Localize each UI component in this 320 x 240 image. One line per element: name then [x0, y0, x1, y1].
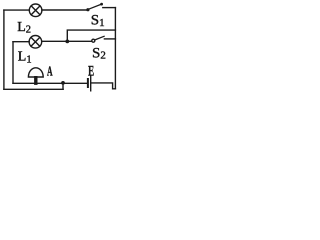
wire: outer left vertical [3, 10, 5, 89]
wire: top left segment [4, 9, 29, 11]
wire: outer bottom left segment [4, 88, 63, 90]
svg-text:L1: L1 [18, 50, 32, 66]
svg-text:S1: S1 [91, 12, 105, 28]
svg-text:L2: L2 [17, 20, 31, 35]
switch S2 [92, 36, 104, 42]
node D1 junction dot [65, 40, 69, 44]
wire: middle left segment [13, 41, 29, 43]
ammeter A [28, 68, 43, 83]
wire: bottom row right segment with step [92, 83, 116, 89]
battery E [88, 76, 91, 91]
wire: S1 right segment [103, 7, 116, 9]
wire: top middle segment [42, 9, 87, 11]
wire: outer right vertical [114, 8, 116, 89]
switch S1 [86, 3, 103, 12]
lamp L1 [29, 36, 42, 49]
svg-text:E: E [88, 62, 94, 79]
wire: bottom row left segment [13, 82, 87, 84]
lamp L2 [29, 4, 42, 17]
wire: middle right segment [42, 40, 92, 42]
wire: branch link riser and horizontal [67, 30, 115, 41]
wire: junction stub down [62, 83, 64, 89]
svg-text:A: A [47, 64, 53, 79]
node D2 junction dot [61, 81, 65, 85]
wire: S2 right segment [104, 38, 115, 40]
svg-text:S2: S2 [92, 45, 106, 61]
wire: inner left vertical [12, 42, 14, 84]
